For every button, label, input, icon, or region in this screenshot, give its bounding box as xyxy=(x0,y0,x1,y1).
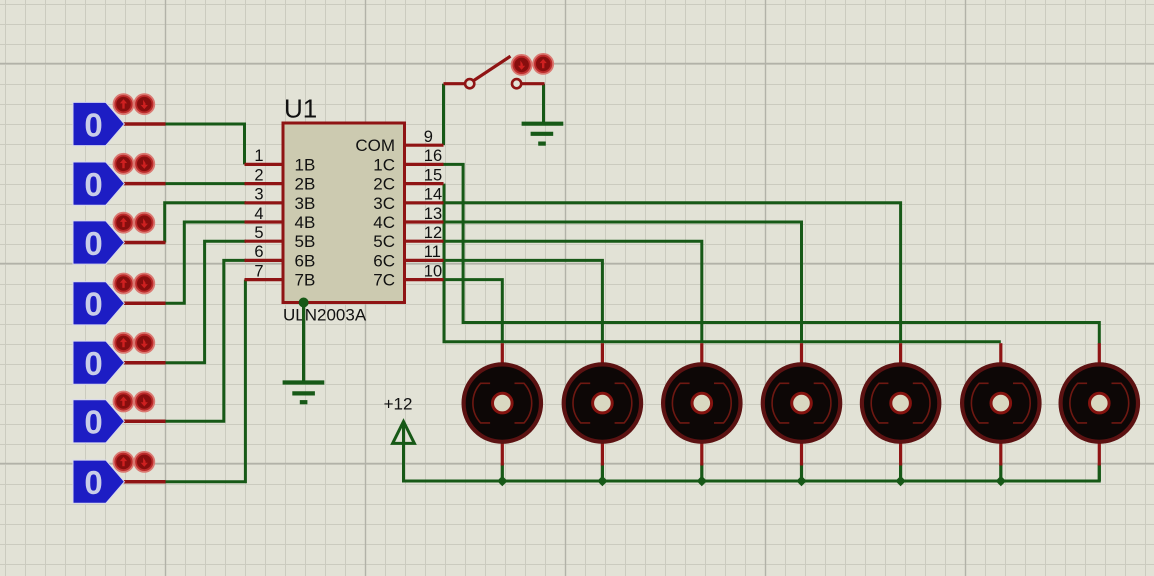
svg-text:12: 12 xyxy=(424,224,442,242)
motor M3 xyxy=(663,364,740,441)
svg-text:4C: 4C xyxy=(373,213,395,232)
switch toggle buttons xyxy=(512,54,553,74)
motor M6 top pin stub xyxy=(999,343,1002,363)
junction on bus at motor M1 xyxy=(497,476,507,486)
svg-text:0: 0 xyxy=(84,286,102,323)
switch right pin stub xyxy=(521,82,545,85)
probe 2 pin stub xyxy=(123,182,165,186)
svg-text:9: 9 xyxy=(424,128,433,146)
wire pin 7C (10) to motor M1 xyxy=(442,280,502,342)
junction on bus at motor M2 xyxy=(597,476,607,486)
wire probe6 output to pin 6B xyxy=(164,260,246,421)
motor M4 bottom pin stub xyxy=(800,443,803,466)
wire motor M3 bottom to bus xyxy=(700,465,703,482)
motor M5 bottom pin stub xyxy=(899,443,902,466)
svg-text:7: 7 xyxy=(254,262,263,280)
wire +12 supply to motor common bus xyxy=(404,423,1100,481)
switch SW1 (SPST) xyxy=(465,56,521,88)
logic state probe P1 xyxy=(73,95,154,146)
wire U1 junction to ground xyxy=(302,303,305,383)
probe 5 pin stub xyxy=(123,361,165,365)
svg-text:0: 0 xyxy=(84,225,102,262)
motor M5 xyxy=(862,364,939,441)
chip pin 12 stub xyxy=(405,240,444,243)
junction on bus at motor M5 xyxy=(895,476,905,486)
svg-text:6B: 6B xyxy=(295,251,316,270)
motor M2 top pin stub xyxy=(601,343,604,363)
junction on bus at motor M4 xyxy=(796,476,806,486)
+12 power arrow symbol xyxy=(393,422,415,444)
wire motor M6 bottom to bus xyxy=(999,465,1002,482)
wire probe3 output to pin 3B xyxy=(165,203,246,243)
svg-text:3C: 3C xyxy=(373,194,395,213)
op-amp U1 ULN2003A body xyxy=(283,123,405,303)
svg-text:6: 6 xyxy=(254,243,263,261)
motor M1 top pin stub xyxy=(501,343,504,363)
svg-text:13: 13 xyxy=(424,205,442,223)
svg-text:0: 0 xyxy=(84,404,102,441)
svg-text:0: 0 xyxy=(84,464,102,501)
probe 7 pin stub xyxy=(123,480,165,484)
svg-text:U1: U1 xyxy=(284,94,317,124)
chip pin 13 stub xyxy=(405,220,444,223)
logic state probe P7 xyxy=(73,452,154,503)
chip pin 10 stub xyxy=(405,278,444,281)
switch left pin stub xyxy=(444,82,466,85)
svg-text:3: 3 xyxy=(254,186,263,204)
wire motor M4 bottom to bus xyxy=(800,465,803,482)
logic state probe P5 xyxy=(73,333,154,384)
svg-text:5C: 5C xyxy=(373,232,395,251)
svg-text:1: 1 xyxy=(254,147,263,165)
svg-text:4: 4 xyxy=(254,205,263,223)
wire motor M5 bottom to bus xyxy=(899,465,902,482)
logic state probe P6 xyxy=(73,392,154,443)
wire pin 1C (16) to motor M7 xyxy=(442,164,1099,343)
probe 4 pin stub xyxy=(123,302,165,306)
logic state probe P2 xyxy=(73,154,154,205)
chip pin 5 stub xyxy=(245,240,284,243)
chip pin 2 stub xyxy=(245,182,284,185)
wire probe5 output to pin 5B xyxy=(164,241,246,363)
wire pin 5C (12) to motor M3 xyxy=(442,241,702,342)
svg-text:7C: 7C xyxy=(373,271,395,290)
svg-text:2: 2 xyxy=(254,166,263,184)
wire probe1 output to pin 1B xyxy=(164,124,245,164)
motor M3 top pin stub xyxy=(700,343,703,363)
wire motor M2 bottom to bus xyxy=(601,465,604,482)
wire pin 3C (14) to motor M5 xyxy=(442,203,901,342)
svg-text:6C: 6C xyxy=(373,251,395,270)
svg-text:2B: 2B xyxy=(295,175,316,194)
svg-text:1B: 1B xyxy=(295,155,316,174)
wire pin 4C (13) to motor M4 xyxy=(442,222,802,342)
svg-text:+12: +12 xyxy=(384,395,413,414)
svg-text:0: 0 xyxy=(84,106,102,143)
chip pin 7 stub xyxy=(245,278,284,281)
probe 6 pin stub xyxy=(123,420,165,424)
chip pin 14 stub xyxy=(405,201,444,204)
wire probe7 output to pin 7B xyxy=(164,280,245,482)
motor M1 bottom pin stub xyxy=(501,443,504,466)
svg-text:5B: 5B xyxy=(295,232,316,251)
wire probe2 output to pin 2B xyxy=(164,182,246,185)
svg-text:16: 16 xyxy=(424,147,442,165)
motor M4 top pin stub xyxy=(800,343,803,363)
svg-text:7B: 7B xyxy=(295,271,316,290)
motor M5 top pin stub xyxy=(899,343,902,363)
chip pin 4 stub xyxy=(245,220,284,223)
logic state probe P3 xyxy=(73,213,154,264)
ground symbol at switch xyxy=(522,124,564,144)
wire pin 2C (15) to motor M6 xyxy=(443,184,1001,342)
motor M3 bottom pin stub xyxy=(700,443,703,466)
wire pin 6C (11) to motor M2 xyxy=(442,260,602,341)
motor M6 xyxy=(962,364,1039,441)
motor M7 top pin stub xyxy=(1098,343,1101,363)
motor M2 bottom pin stub xyxy=(601,443,604,466)
motor M6 bottom pin stub xyxy=(999,443,1002,466)
wire motor M1 bottom to bus xyxy=(501,465,504,482)
motor M4 xyxy=(763,364,840,441)
svg-text:COM: COM xyxy=(355,136,395,155)
svg-text:1C: 1C xyxy=(373,155,395,174)
svg-text:0: 0 xyxy=(84,345,102,382)
wire pin COM (9) up to switch xyxy=(442,84,445,146)
svg-text:0: 0 xyxy=(84,166,102,203)
svg-text:11: 11 xyxy=(424,243,441,261)
wire switch to ground xyxy=(542,84,545,124)
chip pin 16 stub xyxy=(405,163,444,166)
motor M1 xyxy=(464,364,541,441)
junction on bus at motor M6 xyxy=(996,476,1006,486)
motor M2 xyxy=(564,364,641,441)
svg-text:3B: 3B xyxy=(295,194,316,213)
motor M7 bottom pin stub xyxy=(1098,443,1101,466)
svg-text:15: 15 xyxy=(424,166,442,184)
svg-text:5: 5 xyxy=(254,224,263,242)
chip pin 11 stub xyxy=(405,259,444,262)
svg-text:4B: 4B xyxy=(295,213,316,232)
probe 3 pin stub xyxy=(123,241,165,245)
chip pin 1 stub xyxy=(245,163,284,166)
motor M7 xyxy=(1061,364,1138,441)
wire probe4 output to pin 4B xyxy=(164,222,246,303)
svg-text:ULN2003A: ULN2003A xyxy=(283,306,367,325)
chip pin 9 stub (COM) xyxy=(405,144,444,147)
U1 ground junction dot xyxy=(299,298,309,308)
wire motor M7 bottom to bus corner xyxy=(1098,465,1101,482)
svg-text:14: 14 xyxy=(424,186,442,204)
logic state probe P4 xyxy=(73,274,154,325)
junction on bus at motor M3 xyxy=(697,476,707,486)
chip pin 15 stub xyxy=(405,182,444,185)
svg-text:2C: 2C xyxy=(373,175,395,194)
ground symbol under U1 xyxy=(283,383,325,403)
chip pin 6 stub xyxy=(245,259,284,262)
svg-text:10: 10 xyxy=(424,262,442,280)
probe 1 pin stub xyxy=(123,122,165,126)
chip pin 3 stub xyxy=(245,201,284,204)
